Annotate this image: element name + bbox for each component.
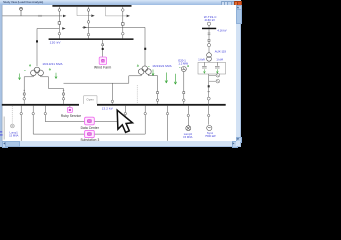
- stub to ground device 2: [209, 79, 220, 83]
- bus AUX (4.16 kV): [202, 28, 216, 30]
- node on tap: [111, 100, 114, 103]
- node on F2 lower: [87, 33, 90, 36]
- window buttons: [221, 1, 226, 6]
- winding symbol green turbine: [179, 65, 189, 67]
- svg-text:AUX-119: AUX-119: [215, 49, 227, 53]
- svg-text:Data Center: Data Center: [81, 126, 100, 130]
- flow arrow green T2: [152, 70, 154, 76]
- wire T1 secondary B: [41, 76, 64, 104]
- capacitor branch left: [202, 62, 207, 73]
- breaker on secondary A: [23, 93, 25, 95]
- breaker on AUX feeder: [208, 39, 210, 41]
- svg-text:4160 kV: 4160 kV: [205, 18, 216, 22]
- node on F3 lower: [122, 32, 125, 35]
- composite network Substation 3: [85, 130, 95, 137]
- wire feeder F1: [58, 7, 60, 39]
- flow arrow green T1 right: [55, 73, 57, 79]
- scrollbar arrow glyphs: [3, 6, 239, 144]
- lump load Lump1 (de-energized): [11, 124, 15, 128]
- winding symbol green: [29, 64, 31, 66]
- node: [44, 112, 46, 114]
- transformer T2 (3-winding): [138, 66, 151, 75]
- node: [187, 114, 189, 116]
- node W-T19-C: [207, 22, 210, 28]
- node on F1: [58, 9, 61, 12]
- svg-text:1 kVA: 1 kVA: [198, 57, 205, 61]
- flow arrow green T1 left: [18, 74, 20, 80]
- node: [20, 112, 22, 114]
- flow arrow: [91, 14, 94, 17]
- node on F3: [122, 9, 125, 12]
- bus B1 (top): [52, 5, 131, 7]
- wire stub clipped feeder: [3, 117, 5, 140]
- label clipped: [0, 131, 3, 136]
- bus B3 left section 13.2 kV: [2, 104, 79, 106]
- utility grid U1: [20, 7, 23, 15]
- node on secondary B: [62, 98, 65, 101]
- node: [32, 112, 34, 114]
- flow arrow: [63, 15, 66, 18]
- wire tap to T2 primary: [82, 27, 145, 66]
- svg-text:Substation 3: Substation 3: [80, 138, 99, 142]
- wire tap to T1 primary: [37, 29, 59, 67]
- scrollbar buttons & thumbs: [236, 5, 242, 11]
- flow arrow: [84, 26, 87, 29]
- flow arrow green: [174, 74, 177, 85]
- composite network Data Center: [85, 117, 95, 125]
- svg-text:7500 kW: 7500 kW: [205, 134, 216, 138]
- wire T2 secondary B: [148, 74, 157, 103]
- node on secondary A: [23, 98, 26, 101]
- svg-text:4.16 kV: 4.16 kV: [217, 28, 226, 32]
- synchronous machine Syn1: [207, 125, 212, 130]
- switch tick secondary B: [63, 89, 65, 91]
- node: [124, 112, 126, 114]
- svg-text:Wind Farm: Wind Farm: [94, 65, 112, 69]
- transformer T3 (2-winding): [207, 53, 212, 62]
- breaker on turbine feeder: [183, 92, 185, 94]
- switch tick: [207, 91, 210, 93]
- node: [144, 112, 146, 114]
- transformer T1 (3-winding): [31, 67, 44, 76]
- node on F2 mid: [87, 21, 90, 24]
- wire tap to bus B3: [111, 83, 113, 104]
- wire L-tap 2 from B1: [105, 7, 126, 16]
- node on AUX feeder: [207, 44, 210, 47]
- breaker CB-T2 closed: [144, 48, 146, 50]
- svg-text:1.2 MW: 1.2 MW: [178, 62, 188, 66]
- svg-text:Ruby Service: Ruby Service: [61, 114, 81, 118]
- flow arrow green: [165, 73, 168, 84]
- mouse cursor: [117, 110, 132, 132]
- wire T1 secondary A: [24, 76, 33, 104]
- node on right feeder: [207, 97, 210, 100]
- wire feeder F2: [88, 7, 90, 39]
- wire T2 secondary A: [64, 74, 142, 83]
- breaker CB-T1 closed: [36, 40, 38, 42]
- wire feeder down right: [167, 106, 169, 141]
- node on F1 lower: [58, 32, 61, 35]
- switch tick secondary A: [24, 89, 26, 91]
- switch ticks: [208, 33, 211, 35]
- svg-text:16/13/21 MVA: 16/13/21 MVA: [152, 64, 171, 68]
- breaker on secondary B: [63, 93, 65, 95]
- wire feeder down left: [20, 106, 22, 141]
- svg-text:120 kV: 120 kV: [50, 41, 62, 45]
- winding symbol green: [24, 68, 50, 70]
- fuse on utility line: [39, 15, 41, 17]
- svg-text:15 MVA: 15 MVA: [9, 133, 19, 137]
- node below bus: [208, 114, 210, 116]
- wind turbine E20-1: [181, 67, 186, 72]
- node on F2: [87, 9, 90, 12]
- svg-text:1 kVA: 1 kVA: [216, 57, 223, 61]
- composite network Wind Farm: [99, 57, 106, 64]
- wire Lump3 feeder: [187, 106, 189, 126]
- canvas sunken edge: [1, 5, 3, 141]
- node: [166, 112, 168, 114]
- wire Lump1 dashed (de-energized): [11, 106, 13, 124]
- svg-text:16/13/21 MVA: 16/13/21 MVA: [42, 62, 62, 66]
- svg-text:15 MVA: 15 MVA: [183, 135, 193, 139]
- stub to ground device 1: [209, 74, 220, 78]
- wire AUX feeder: [208, 29, 210, 53]
- wire to Wind Farm: [102, 40, 104, 57]
- breaker on T2 secondary B: [157, 92, 159, 94]
- wire feeder F3: [122, 7, 124, 39]
- breaker closed on Wind Farm feeder: [102, 48, 104, 50]
- breaker CB1: [58, 22, 61, 25]
- capacitor branch right: [215, 62, 220, 73]
- wire L-tap from B1: [77, 7, 91, 16]
- wire to Data Center left: [45, 106, 84, 122]
- svg-text:Open: Open: [87, 97, 95, 101]
- wire to Substation 3 right: [94, 106, 145, 134]
- breaker CB3: [122, 23, 125, 26]
- bus B2 120 kV: [49, 38, 134, 40]
- wire dashed spare tap: [136, 85, 138, 104]
- wire below MCC box: [208, 74, 210, 125]
- lump load Lump3: [186, 126, 191, 131]
- tie breaker box Open: [84, 96, 97, 104]
- MCC box with capacitors: [198, 62, 226, 74]
- node on turbine feeder: [183, 99, 186, 102]
- wire utility line: [2, 15, 62, 17]
- winding symbol green: [137, 65, 150, 67]
- wire to Substation 3 left: [33, 106, 84, 134]
- flow arrow: [127, 15, 130, 18]
- breaker closed on right feeder: [208, 85, 210, 87]
- switch on Wind Farm feeder: [102, 44, 104, 46]
- svg-text:13.2 kV: 13.2 kV: [102, 106, 113, 110]
- flow arrow: [62, 27, 65, 30]
- wire to Data Center right: [94, 106, 125, 122]
- node on T2 secondary B: [156, 99, 159, 102]
- bus B3 right section: [97, 104, 226, 106]
- composite motor Ruby Service: [67, 106, 72, 113]
- wire turbine feeder: [183, 72, 185, 104]
